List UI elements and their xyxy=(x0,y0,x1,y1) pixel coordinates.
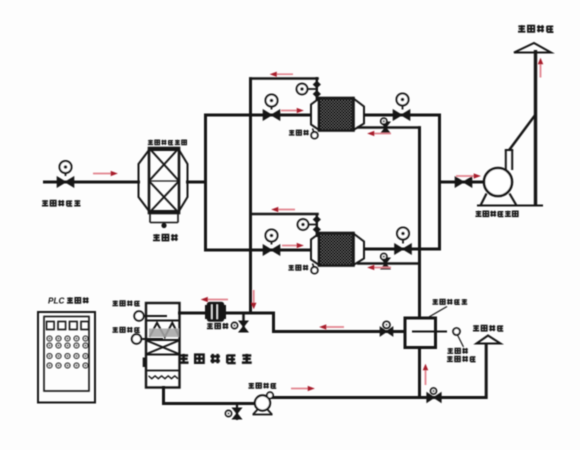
svg-text:PLC: PLC xyxy=(48,297,65,306)
